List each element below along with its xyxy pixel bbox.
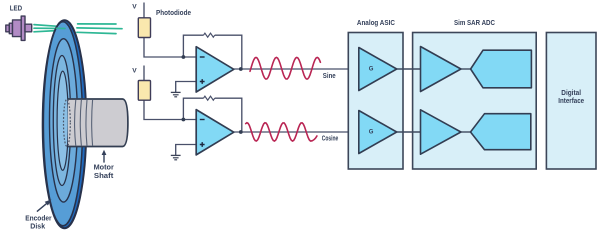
svg-text:Encoder: Encoder (25, 216, 52, 223)
svg-text:G: G (369, 129, 374, 135)
svg-text:Sim SAR ADC: Sim SAR ADC (454, 20, 495, 27)
svg-text:Shaft: Shaft (94, 173, 114, 180)
svg-text:Digital: Digital (561, 90, 581, 97)
svg-text:Photodiode: Photodiode (156, 10, 191, 17)
svg-text:Sine: Sine (323, 73, 336, 80)
svg-text:Interface: Interface (558, 98, 584, 105)
svg-text:Cosine: Cosine (322, 135, 339, 142)
svg-text:LED: LED (10, 5, 22, 12)
svg-text:G: G (369, 66, 374, 72)
svg-text:V: V (132, 3, 137, 10)
svg-text:Motor: Motor (94, 164, 114, 171)
svg-text:V: V (132, 68, 137, 75)
svg-text:Disk: Disk (30, 224, 45, 231)
svg-text:Analog ASIC: Analog ASIC (357, 20, 395, 27)
